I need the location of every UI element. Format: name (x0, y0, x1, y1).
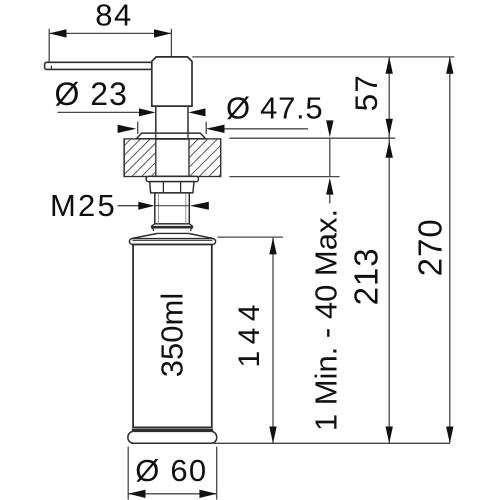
dimension O23 leader (58, 111, 142, 113)
57 arrow down (above junction) (386, 119, 393, 136)
hatch left panel (125, 140, 155, 176)
shoulder bead (129, 239, 215, 245)
dimension M25 leader (118, 205, 141, 207)
bead inner line (133, 240, 213, 242)
thread inner line left (157, 193, 159, 224)
270 arrow up (446, 57, 453, 74)
neck below head (left edge) (155, 106, 157, 133)
dimension M25 arrow right (bare) (190, 202, 209, 210)
dimension O47.5 tick left (137, 122, 139, 134)
svg-text:Ø 23: Ø 23 (55, 76, 128, 112)
dimension 270 line (449, 57, 451, 443)
reference line bottle top (217, 236, 283, 238)
svg-text:M25: M25 (50, 188, 117, 223)
bottle base bulge (128, 431, 217, 443)
collar (153, 228, 192, 231)
svg-text:350ml: 350ml (155, 293, 190, 377)
dimension O47.5 arrow right with tail (206, 125, 225, 133)
svg-text:1 Min. - 40 Max.: 1 Min. - 40 Max. (309, 209, 344, 431)
M25 threaded tube (155, 193, 190, 224)
hex nut (150, 182, 194, 193)
svg-text:Ø 60: Ø 60 (135, 453, 207, 488)
dimension M25 arrow left (138, 202, 154, 210)
inner edges of hatch window (155, 139, 157, 176)
dimension 144 arrow down (269, 427, 276, 444)
O60 extension line right (216, 447, 218, 500)
ground line (212, 442, 450, 444)
svg-text:Ø 47.5: Ø 47.5 (226, 91, 323, 126)
reference line top (head top) (192, 56, 454, 58)
reference line flange bottom (229, 176, 339, 178)
dimension O47.5 tick right (205, 122, 207, 134)
thread inner line right (185, 193, 187, 224)
dimension O23 arrow right (188, 108, 205, 116)
O60 arrow right (199, 490, 216, 498)
bottle base thin line (132, 429, 213, 431)
bottle shoulder slopes (131, 233, 214, 238)
270 arrow down (446, 427, 453, 444)
neck lines through cap (155, 133, 157, 139)
213 arrow up (below junction) (386, 141, 393, 158)
pump head body (152, 57, 192, 106)
bottle body (133, 245, 212, 428)
flange cap trapezoid (136, 133, 205, 139)
dimension 84 arrow right (154, 29, 171, 37)
svg-text:57: 57 (348, 74, 384, 111)
dimension 84 extension tick left (48, 29, 50, 65)
213 arrow down (386, 427, 393, 444)
bottle shoulder top edge (157, 232, 188, 234)
57 arrow up (386, 57, 393, 74)
min-max dimension line (329, 138, 331, 176)
spout outlet tick (50, 66, 52, 69)
O60 dimension line (128, 493, 217, 495)
spout tube (45, 62, 153, 69)
O60 extension line left (127, 447, 129, 500)
center line dash-dot inside head (170, 59, 172, 75)
svg-text:84: 84 (95, 0, 132, 33)
min-max stem (329, 195, 331, 204)
hatch right panel (190, 140, 220, 176)
washer under ring (146, 176, 198, 181)
dimension 84 line (49, 32, 171, 34)
dimension O47.5 arrow left (bare) (118, 125, 137, 133)
knurled ring block (124, 139, 220, 176)
reference line flange top (229, 137, 395, 139)
dimension O23 arrow left (139, 108, 156, 116)
tube bottom flare (151, 224, 193, 228)
dimension 84 arrow left (49, 29, 66, 37)
center line of pump head (solid upper part) (170, 29, 172, 57)
dimension 57/213 line (388, 57, 390, 443)
svg-text:213: 213 (348, 247, 385, 305)
svg-text:144: 144 (233, 298, 266, 368)
neck below head (right edge) (187, 106, 189, 133)
svg-text:270: 270 (412, 218, 449, 276)
dimension 144 arrow up (269, 238, 276, 255)
hex nut facet lines (162, 182, 164, 193)
min-max dimension arrow up (below) (326, 178, 333, 195)
min-max dimension arrow down (above) (326, 120, 333, 137)
dimension 144 line (272, 238, 274, 444)
O60 arrow left (128, 490, 145, 498)
